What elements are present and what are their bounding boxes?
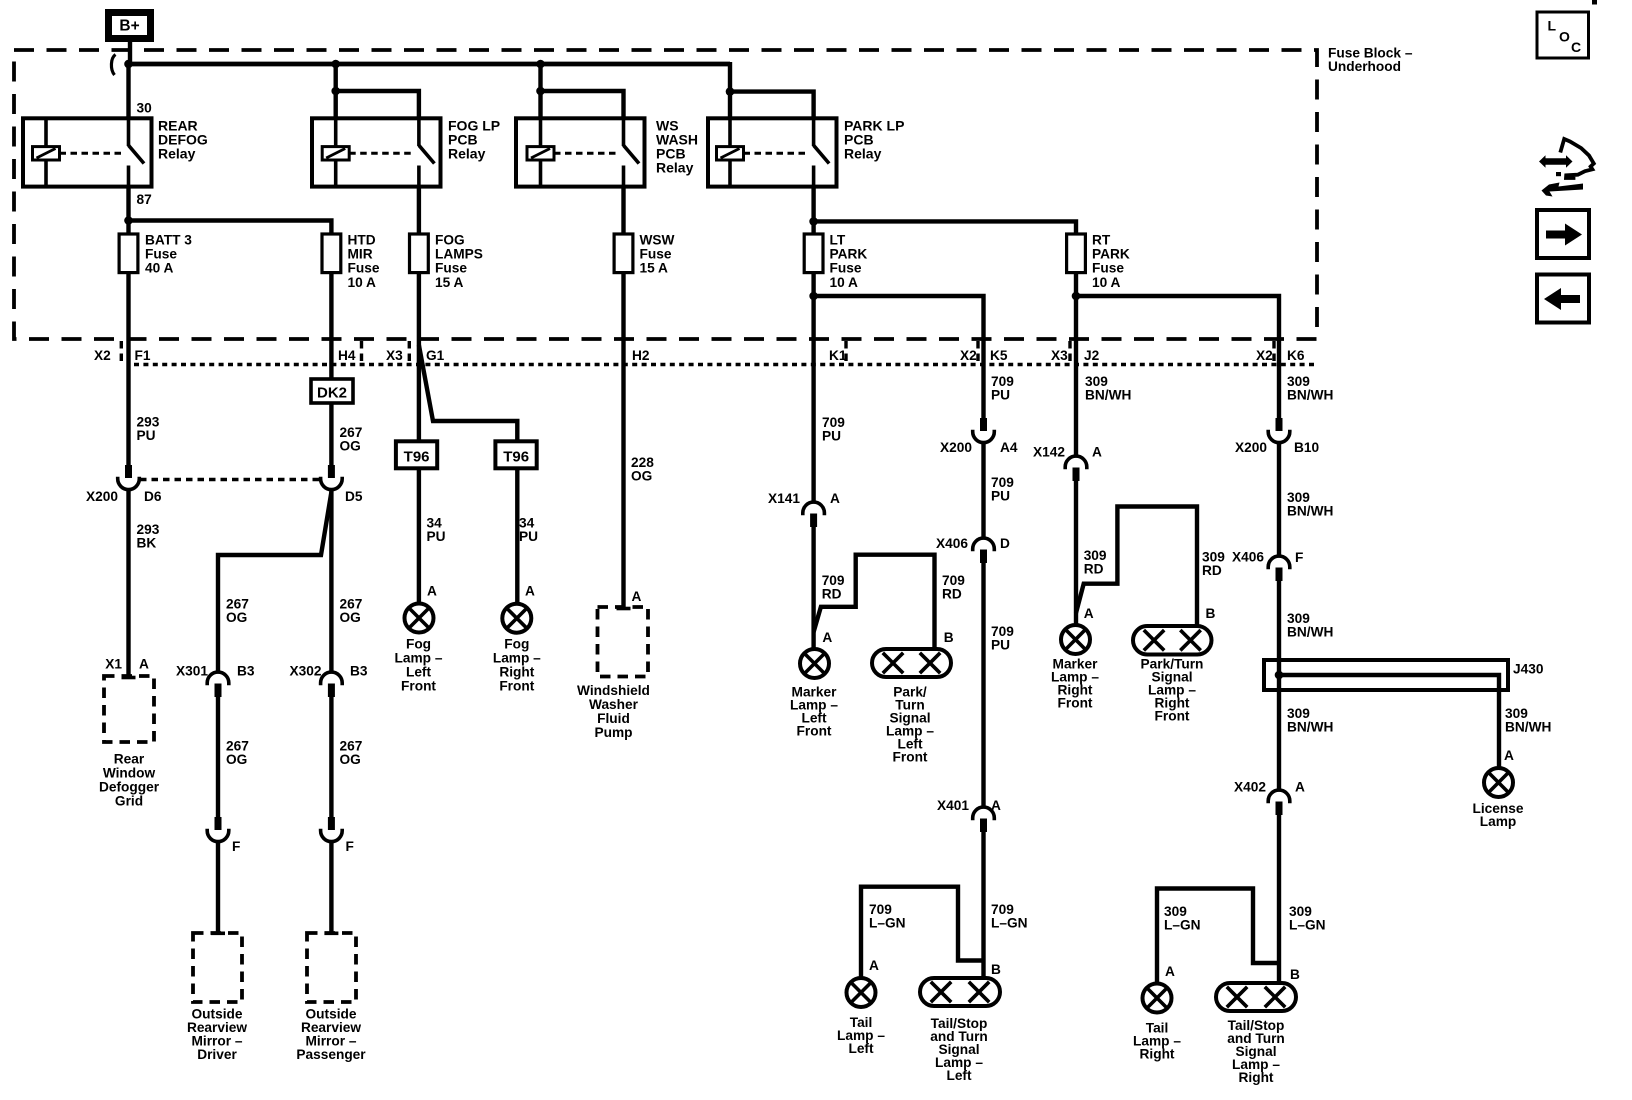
svg-text:87: 87: [137, 192, 153, 207]
relay U2 FOG LP PCB: [312, 118, 441, 186]
component box Outside Rearview Mirror Passenger: [307, 933, 356, 1002]
svg-text:X301: X301: [176, 664, 208, 679]
svg-text:PU: PU: [991, 489, 1010, 504]
svg-text:Lamp: Lamp: [1480, 814, 1517, 829]
fuse FOG LAMPS 15A: [410, 234, 429, 273]
svg-text:Pump: Pump: [594, 725, 632, 740]
label K1: [829, 348, 847, 363]
svg-text:BN/WH: BN/WH: [1085, 388, 1131, 403]
lamp Tail/Stop and Turn Signal Lamp Right: [1216, 983, 1296, 1011]
svg-text:G1: G1: [426, 348, 445, 363]
label wire 309 L-GN left: [1164, 904, 1201, 933]
wire J430 to license lamp: [1279, 675, 1499, 768]
label pin A marker right: [1084, 606, 1094, 621]
wire splice to K5: [814, 296, 984, 418]
wire FOG LAMPS fuse down to G1/T96: [417, 272, 421, 441]
wire X142 down to marker right: [1074, 481, 1078, 626]
connector F driver: [207, 817, 229, 842]
label Tail Lamp Left: [837, 1015, 885, 1056]
svg-text:B: B: [944, 630, 954, 645]
svg-text:Relay: Relay: [844, 146, 882, 162]
svg-text:Front: Front: [893, 750, 928, 765]
label WS WASH PCB Relay: [656, 118, 698, 176]
label X401 A: [937, 798, 1001, 813]
label A4: [1000, 440, 1018, 455]
wire relay3 output: [621, 187, 625, 235]
node junction inside J430: [1275, 671, 1284, 680]
label Tail/Stop and Turn Signal Lamp Right: [1227, 1018, 1285, 1085]
label X1 A: [105, 657, 149, 672]
svg-text:B10: B10: [1294, 440, 1319, 455]
label wire 309 BN/WH K6 mid: [1287, 490, 1333, 519]
wire relay2 output: [417, 187, 421, 235]
wire main B+ bus: [127, 62, 731, 67]
separator H4: [360, 341, 363, 362]
svg-text:D: D: [1000, 536, 1010, 551]
wire tee to PARK LP switch: [730, 92, 814, 119]
label X302 B3: [290, 664, 368, 679]
svg-text:Fuse: Fuse: [830, 261, 862, 276]
wire branch D5 to X301: [218, 492, 331, 672]
svg-text:X3: X3: [386, 348, 403, 363]
label X2 K6: [1256, 348, 1305, 363]
svg-text:K6: K6: [1287, 348, 1305, 363]
svg-text:F1: F1: [135, 348, 151, 363]
svg-text:D5: D5: [345, 489, 363, 504]
wire BATT3 fuse down to F1: [126, 272, 130, 466]
label Tail Lamp Right: [1133, 1021, 1181, 1062]
separator K1: [844, 341, 847, 362]
wire through J430: [1277, 660, 1281, 690]
svg-text:T96: T96: [404, 449, 430, 466]
svg-text:L–GN: L–GN: [1289, 918, 1326, 933]
label wire 309 BN/WH below J430 right: [1505, 706, 1551, 735]
svg-text:Fuse: Fuse: [640, 247, 672, 262]
svg-text:Underhood: Underhood: [1328, 59, 1401, 74]
label G1: [426, 348, 445, 363]
label X2 K5: [960, 348, 1008, 363]
svg-text:J2: J2: [1084, 348, 1100, 363]
svg-text:Lamp –: Lamp –: [493, 651, 541, 666]
fuse BATT 3 40A: [119, 234, 138, 273]
label wire 309 BN/WH J2: [1085, 374, 1131, 403]
svg-text:Grid: Grid: [115, 794, 143, 809]
relay U1 REAR DEFOG: [23, 118, 152, 186]
label wire 228 OG: [631, 455, 654, 484]
lamp Park/Turn Signal Lamp Left Front: [872, 649, 951, 677]
svg-text:L–GN: L–GN: [991, 916, 1028, 931]
svg-text:OG: OG: [340, 752, 361, 767]
wire F down to passenger mirror: [324, 840, 338, 933]
svg-text:Right: Right: [1239, 1070, 1274, 1085]
label Fuse Block - Underhood: [1328, 46, 1413, 75]
wire branch to tail lamp right: [1157, 889, 1279, 984]
svg-text:RD: RD: [942, 587, 962, 602]
svg-text:A: A: [1084, 606, 1094, 621]
node junction LT PARK splice: [809, 292, 818, 301]
label Outside Rearview Mirror Passenger: [296, 1007, 366, 1063]
svg-text:H4: H4: [338, 348, 356, 363]
connector X200 A4: [973, 418, 995, 443]
connector row lower dashed line: [134, 363, 1317, 366]
component T96 left: [396, 441, 437, 468]
connector D5: [321, 465, 343, 490]
svg-text:Washer: Washer: [589, 697, 639, 712]
wire pin30 into relay: [126, 64, 130, 118]
lamp Fog Lamp Left Front: [405, 604, 434, 633]
wire B10 down to X406F: [1277, 442, 1281, 556]
label H2: [632, 348, 650, 363]
svg-text:Front: Front: [499, 679, 534, 694]
svg-text:OG: OG: [340, 439, 361, 454]
label wire 293 PU: [137, 415, 160, 444]
label wire 709 PU K1: [822, 415, 845, 444]
svg-text:PU: PU: [991, 388, 1010, 403]
icon LOC box: [1537, 12, 1589, 58]
svg-text:LAMPS: LAMPS: [435, 247, 483, 262]
node tee PARK LP: [726, 87, 735, 96]
label wire 309 RD X406: [1202, 550, 1225, 579]
svg-text:Fuse: Fuse: [435, 261, 467, 276]
svg-text:X302: X302: [290, 664, 322, 679]
wire A4 down to X406D: [981, 442, 985, 538]
svg-text:A: A: [632, 589, 642, 604]
svg-text:Fluid: Fluid: [597, 711, 630, 726]
svg-text:Passenger: Passenger: [296, 1047, 366, 1062]
svg-text:B3: B3: [350, 664, 368, 679]
label HTD MIR Fuse 10 A: [348, 232, 380, 290]
label pin A marker left: [822, 630, 832, 645]
svg-text:Defogger: Defogger: [99, 780, 160, 795]
label D: [1000, 536, 1010, 551]
dashed link D6 to D5: [140, 478, 320, 481]
svg-text:15 A: 15 A: [435, 275, 464, 290]
label X141 A: [768, 491, 840, 506]
svg-text:Relay: Relay: [448, 146, 486, 162]
label pin B tailstop left: [991, 962, 1001, 977]
node bus junction WS WASH: [536, 60, 545, 69]
label Windshield Washer Fluid Pump: [577, 683, 650, 740]
svg-text:PU: PU: [137, 428, 156, 443]
svg-text:B: B: [1290, 967, 1300, 982]
svg-text:Rear: Rear: [114, 752, 145, 767]
fuse block underhood dashed border: [14, 50, 1317, 339]
wire splice to K6: [1076, 296, 1279, 418]
wire X302 down to F: [329, 697, 333, 817]
svg-text:H2: H2: [632, 348, 650, 363]
component T96 right: [495, 441, 536, 468]
svg-text:X2: X2: [94, 348, 111, 363]
svg-text:Front: Front: [401, 679, 436, 694]
wire branch to tail lamp left: [861, 887, 984, 978]
svg-text:Driver: Driver: [197, 1047, 237, 1062]
svg-text:Fuse: Fuse: [145, 247, 177, 262]
label wire 709 PU K5 upper: [991, 374, 1014, 403]
wire branch G1 to right T96: [419, 345, 517, 441]
component box Outside Rearview Mirror Driver: [193, 933, 242, 1002]
icon vehicle outline with arrows: [1539, 139, 1594, 197]
node bus junction at REAR DEFOG feed: [124, 60, 133, 69]
svg-text:Left: Left: [946, 1068, 972, 1083]
svg-text:A: A: [525, 584, 535, 599]
wire branch to park/turn left: [814, 555, 935, 649]
power feed B+ terminal: [109, 13, 151, 39]
label wire 709 PU K5 mid: [991, 475, 1014, 504]
svg-text:PARK: PARK: [1092, 247, 1130, 262]
svg-text:Right: Right: [1140, 1047, 1175, 1062]
svg-text:Front: Front: [1058, 696, 1093, 711]
label FOG LP PCB Relay: [448, 118, 500, 162]
lamp Tail Lamp Right: [1143, 984, 1172, 1013]
label X200 left of B10: [1235, 440, 1267, 455]
svg-text:BN/WH: BN/WH: [1287, 504, 1333, 519]
label wire 709 RD right: [942, 573, 965, 602]
icon tiny mark top edge: [1592, 0, 1597, 5]
connector X141 A: [803, 502, 825, 527]
label WSW Fuse 15 A: [640, 232, 675, 275]
label X2 F1: [94, 348, 151, 363]
label pin A tail right: [1165, 964, 1175, 979]
connector X142 A: [1065, 456, 1087, 481]
svg-text:DK2: DK2: [317, 385, 347, 402]
label D5: [345, 489, 363, 504]
svg-text:X200: X200: [1235, 440, 1267, 455]
lamp Fog Lamp Right Front: [502, 604, 531, 633]
svg-text:X402: X402: [1234, 780, 1266, 795]
svg-text:J430: J430: [1513, 662, 1544, 677]
node junction RT PARK splice: [1072, 292, 1081, 301]
svg-text:Windshield: Windshield: [577, 683, 650, 698]
svg-text:O: O: [1559, 29, 1570, 45]
wire hook at B+ bus entry: [111, 55, 115, 76]
label D6: [144, 489, 162, 504]
component box Windshield Washer Fluid Pump: [598, 607, 649, 677]
label RT PARK Fuse 10 A: [1092, 232, 1130, 290]
label pin B tailstop right: [1290, 967, 1300, 982]
svg-text:PU: PU: [427, 529, 446, 544]
svg-text:F: F: [232, 839, 240, 854]
label pin A washer: [632, 589, 642, 604]
svg-text:BK: BK: [137, 536, 157, 551]
connector X406 F: [1268, 556, 1290, 581]
connector X302 B3: [321, 672, 343, 697]
wire X406D down to X401: [981, 563, 985, 807]
label wire 309 RD left: [1084, 548, 1107, 577]
lamp Tail Lamp Left: [847, 978, 876, 1007]
wire X141 down to marker left: [811, 527, 815, 649]
label wire 709 L-GN left: [869, 902, 906, 931]
component DK2 box: [311, 379, 353, 403]
wire D6 down to X1: [122, 489, 136, 678]
label X406 left of D: [936, 536, 968, 551]
relay U3 WS WASH PCB: [516, 118, 645, 186]
svg-text:LT: LT: [830, 232, 846, 247]
node junction park tee: [809, 217, 818, 226]
label J430: [1513, 662, 1544, 677]
svg-text:Front: Front: [1155, 709, 1190, 724]
svg-text:15 A: 15 A: [640, 261, 669, 276]
label wire 309 BN/WH above J430: [1287, 611, 1333, 640]
label pin A fog left: [427, 584, 437, 599]
label X3 J2: [1051, 348, 1100, 363]
svg-text:X401: X401: [937, 798, 969, 813]
label wire 709 PU K5 lower: [991, 624, 1014, 653]
label Fog Lamp Left Front: [395, 637, 443, 694]
separator X3-J2: [1068, 341, 1071, 362]
label wire 267 OG lower right: [340, 739, 363, 768]
separator X2-K6: [1272, 341, 1275, 362]
svg-text:X141: X141: [768, 491, 800, 506]
svg-text:BATT 3: BATT 3: [145, 232, 192, 247]
label F passenger: [346, 839, 354, 854]
svg-text:A: A: [427, 584, 437, 599]
svg-text:FOG: FOG: [435, 232, 465, 247]
svg-text:WSW: WSW: [640, 232, 675, 247]
label wire 709 RD left: [822, 573, 845, 602]
lamp License Lamp: [1484, 768, 1513, 797]
label H4: [338, 348, 356, 363]
svg-text:OG: OG: [226, 752, 247, 767]
label Park/Turn Signal Lamp Left Front: [886, 685, 934, 765]
label wire 34 PU right: [519, 516, 538, 545]
svg-text:D6: D6: [144, 489, 162, 504]
label wire 293 BK: [137, 522, 160, 551]
splice pack J430 box: [1264, 660, 1508, 690]
wire bus drop WS WASH coil: [538, 64, 542, 118]
label License Lamp: [1473, 801, 1524, 829]
svg-text:A: A: [991, 798, 1001, 813]
svg-text:PARK: PARK: [830, 247, 868, 262]
svg-text:A4: A4: [1000, 440, 1018, 455]
svg-text:X406: X406: [936, 536, 968, 551]
svg-text:A: A: [830, 491, 840, 506]
label X3: [386, 348, 403, 363]
lamp Marker Lamp Left Front: [800, 649, 829, 678]
label LT PARK Fuse 10 A: [830, 232, 868, 290]
label X402 A: [1234, 780, 1305, 795]
label wire 267 OG left branch: [226, 597, 249, 626]
label wire 34 PU left: [427, 516, 446, 545]
label wire 309 BN/WH below J430 left: [1287, 706, 1333, 735]
svg-text:L–GN: L–GN: [1164, 918, 1201, 933]
wire tee to FOG LP switch: [336, 91, 419, 118]
label FOG LAMPS Fuse 15 A: [435, 232, 483, 290]
relay U4 PARK LP PCB: [708, 118, 837, 186]
label pin 30: [137, 101, 153, 116]
wire bus drop PARK LP coil: [728, 62, 732, 118]
svg-text:RT: RT: [1092, 232, 1111, 247]
label pin B parkturn left: [944, 630, 954, 645]
wire relay4 output: [811, 187, 815, 235]
svg-text:X406: X406: [1232, 550, 1264, 565]
label F right: [1295, 550, 1303, 565]
svg-text:B: B: [1206, 606, 1216, 621]
label wire 309 L-GN right: [1289, 904, 1326, 933]
svg-text:PU: PU: [519, 529, 538, 544]
svg-text:Lamp –: Lamp –: [395, 651, 443, 666]
svg-text:Fog: Fog: [406, 637, 431, 652]
svg-text:30: 30: [137, 101, 153, 116]
node tee FOG LP: [331, 87, 340, 96]
wire branch to park/turn right: [1076, 507, 1197, 627]
node tee WS WASH: [536, 87, 545, 96]
component box Rear Window Defogger Grid: [104, 676, 154, 742]
icon right arrow box: [1537, 210, 1589, 258]
fuse WSW 15A: [614, 234, 633, 273]
wire X401 down to tailstop B: [981, 832, 985, 978]
connector X402 A: [1268, 790, 1290, 815]
label X200 left of D6: [86, 489, 118, 504]
lamp Park/Turn Signal Lamp Right Front: [1133, 626, 1212, 655]
svg-text:A: A: [1295, 780, 1305, 795]
label BATT 3 Fuse 40 A: [145, 232, 192, 275]
svg-text:PU: PU: [991, 638, 1010, 653]
svg-text:Right: Right: [499, 665, 534, 680]
svg-text:Fog: Fog: [504, 637, 529, 652]
label Marker Lamp Right Front: [1051, 657, 1099, 711]
wire X402 down to tailstop B: [1277, 815, 1281, 983]
separator X2-F1: [120, 341, 123, 362]
wire DK2 to D5: [329, 403, 333, 465]
svg-text:X2: X2: [960, 348, 977, 363]
wire T96L to fog lamp left: [417, 468, 421, 603]
svg-text:A: A: [1165, 964, 1175, 979]
label wire 267 OG below DK2: [340, 425, 363, 454]
label Tail/Stop and Turn Signal Lamp Left: [930, 1016, 988, 1083]
svg-text:RD: RD: [822, 587, 842, 602]
wire tee to HTD MIR fuse: [129, 221, 332, 235]
label Marker Lamp Left Front: [790, 685, 838, 739]
label pin B parkturn right: [1206, 606, 1216, 621]
svg-text:10 A: 10 A: [830, 275, 859, 290]
wire RT PARK fuse down to J2/X142: [1074, 272, 1078, 457]
svg-text:BN/WH: BN/WH: [1287, 388, 1333, 403]
svg-text:MIR: MIR: [348, 247, 373, 262]
label pin 87: [137, 192, 153, 207]
svg-text:RD: RD: [1202, 563, 1222, 578]
wire F down to driver mirror: [211, 840, 225, 933]
svg-text:Relay: Relay: [158, 146, 196, 162]
svg-text:RD: RD: [1084, 562, 1104, 577]
label wire 309 BN/WH K6 upper: [1287, 374, 1333, 403]
wire tee to WS WASH switch: [541, 91, 624, 118]
label Rear Window Defogger Grid: [99, 752, 160, 809]
svg-text:OG: OG: [340, 610, 361, 625]
wire tee to RT PARK fuse: [814, 221, 1076, 234]
svg-text:A: A: [139, 657, 149, 672]
svg-text:HTD: HTD: [348, 232, 376, 247]
svg-text:Left: Left: [406, 665, 432, 680]
wire D5 down to X302: [329, 489, 333, 672]
svg-text:Relay: Relay: [656, 160, 694, 176]
svg-text:X1: X1: [105, 657, 122, 672]
svg-text:A: A: [1504, 748, 1514, 763]
svg-text:OG: OG: [631, 469, 652, 484]
wire HTD MIR fuse down to H4/DK2: [329, 272, 333, 380]
connector F passenger: [321, 817, 343, 842]
svg-text:X142: X142: [1033, 445, 1065, 460]
node bus junction FOG LP: [331, 60, 340, 69]
wire B+ to bus: [128, 40, 132, 62]
label X406 right: [1232, 550, 1264, 565]
label REAR DEFOG Relay: [158, 118, 208, 162]
svg-text:A: A: [1092, 445, 1102, 460]
fuse HTD MIR 10A: [322, 234, 341, 273]
svg-text:OG: OG: [226, 610, 247, 625]
label pin A license: [1504, 748, 1514, 763]
label Park/Turn Signal Lamp Right Front: [1141, 657, 1204, 724]
svg-text:L–GN: L–GN: [869, 916, 906, 931]
